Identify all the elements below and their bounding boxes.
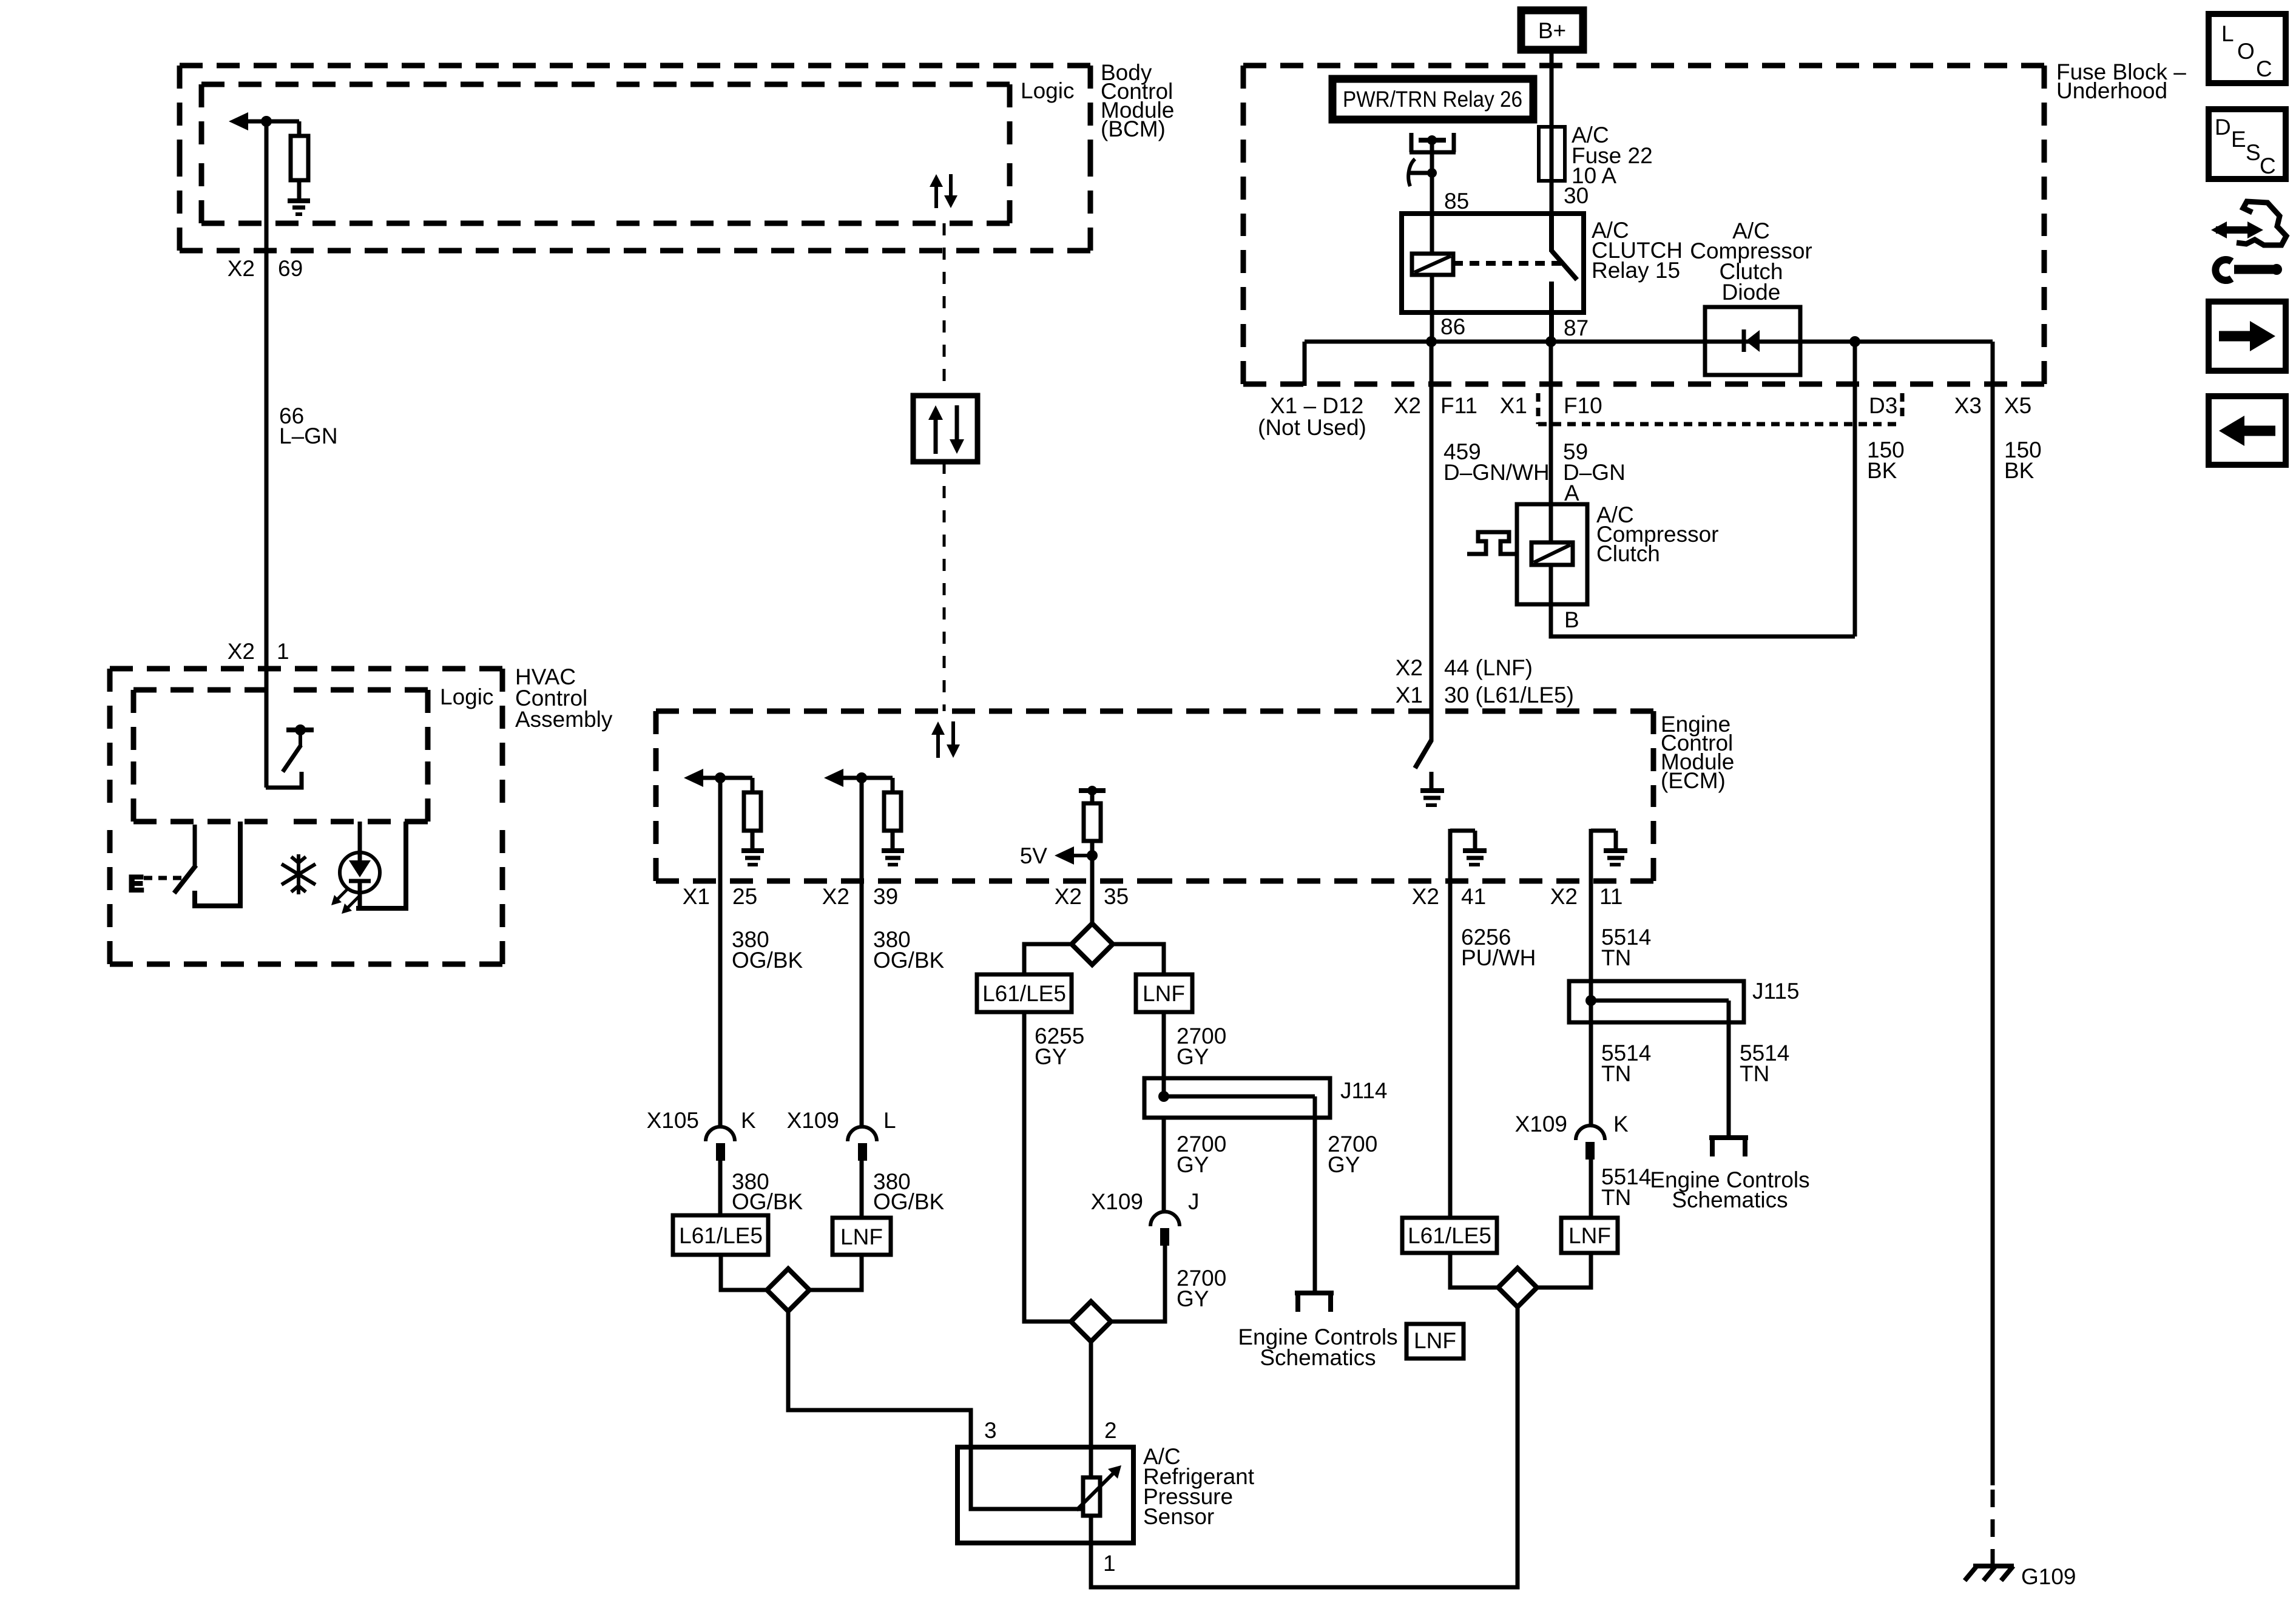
- svg-text:B+: B+: [1538, 18, 1566, 43]
- diode A/C Compressor Clutch Diode: [1705, 307, 1800, 375]
- wire LNF to splice: [809, 1255, 862, 1290]
- svg-text:GY: GY: [1177, 1044, 1209, 1069]
- svg-text:L61/LE5: L61/LE5: [679, 1223, 763, 1248]
- wire below X109: [860, 1161, 864, 1218]
- BCM serial data arrows: [934, 185, 938, 208]
- svg-text:X2: X2: [1412, 884, 1439, 909]
- dashed data wire BCM to ECM: [943, 223, 946, 396]
- svg-text:OG/BK: OG/BK: [873, 1189, 945, 1214]
- svg-text:LNF: LNF: [1568, 1223, 1611, 1248]
- splice S1: [767, 1269, 809, 1311]
- svg-text:LNF: LNF: [1414, 1328, 1456, 1353]
- svg-text:K: K: [1613, 1112, 1629, 1136]
- wire J114 left leg down: [1162, 1118, 1166, 1212]
- relay15 coil: [1430, 214, 1434, 254]
- svg-text:X1: X1: [1396, 683, 1423, 707]
- svg-text:X105: X105: [647, 1108, 699, 1133]
- junction dot diode out: [1849, 336, 1860, 347]
- sensor internal wiring: [971, 1447, 1084, 1509]
- svg-text:C: C: [2256, 56, 2272, 81]
- wire X1-25 down: [718, 778, 723, 1127]
- svg-text:X1 – D12: X1 – D12: [1270, 393, 1363, 418]
- HVAC inner Logic dashed box: [133, 690, 428, 822]
- wire J115 right leg down: [1727, 1001, 1731, 1138]
- svg-text:J115: J115: [1752, 979, 1800, 1004]
- splice S4: [1498, 1268, 1537, 1307]
- svg-text:E: E: [129, 871, 144, 896]
- svg-text:1: 1: [1103, 1551, 1116, 1576]
- svg-text:5V: 5V: [1020, 843, 1048, 868]
- serial data symbol box: [913, 396, 977, 462]
- svg-text:TN: TN: [1601, 945, 1631, 970]
- svg-text:L–GN: L–GN: [279, 424, 338, 448]
- ECM ground pigtail pin X2-41: [1450, 829, 1475, 881]
- wire F10 59 down to clutch: [1549, 342, 1553, 504]
- wire LNF to splice S4: [1537, 1253, 1591, 1288]
- svg-text:(BCM): (BCM): [1101, 116, 1166, 141]
- wire splice to sensor pin 2: [1089, 1342, 1093, 1447]
- connector J115: [1569, 981, 1744, 1022]
- svg-text:1: 1: [277, 639, 289, 664]
- svg-text:10 A: 10 A: [1572, 163, 1616, 188]
- svg-text:PWR/TRN Relay 26: PWR/TRN Relay 26: [1343, 87, 1522, 112]
- svg-text:GY: GY: [1328, 1152, 1360, 1177]
- svg-text:X2: X2: [228, 256, 255, 281]
- relay15 switch: [1549, 214, 1554, 252]
- PWR/TRN Relay 26 box: [1332, 79, 1533, 120]
- icon wrench/arrow: [2211, 201, 2286, 280]
- wire F11 459 down to ECM: [1430, 342, 1434, 714]
- svg-text:BK: BK: [1867, 458, 1897, 483]
- svg-text:GY: GY: [1177, 1286, 1209, 1311]
- wire junction rail 86/87/diode: [1305, 340, 1993, 344]
- switch A/C on-off (HVAC panel): [193, 825, 197, 866]
- icon LOC: [2209, 14, 2286, 83]
- ECM serial data arrows: [936, 732, 940, 758]
- svg-text:LNF: LNF: [840, 1224, 883, 1249]
- splice S2: [1072, 923, 1113, 965]
- svg-text:2: 2: [1104, 1418, 1117, 1443]
- wire L61 to splice: [721, 1255, 767, 1290]
- ECM input circuit pin X1-25: arrow, resistor, ground: [684, 769, 703, 787]
- ground (ECM driver): [1430, 772, 1434, 788]
- 5V node: [1087, 850, 1098, 861]
- code box LNF: [1561, 1218, 1618, 1253]
- clutch actuator squiggle: [1467, 532, 1517, 554]
- svg-text:TN: TN: [1601, 1061, 1631, 1086]
- wire J115 left leg down: [1589, 1001, 1593, 1124]
- svg-text:K: K: [741, 1108, 756, 1133]
- ECM input circuit pin X2-39: arrow, resistor, ground: [824, 769, 843, 787]
- wire B+ feed: [1550, 53, 1554, 214]
- node junction dot BCM: [261, 116, 272, 127]
- wire J114 right leg down: [1313, 1096, 1317, 1293]
- svg-text:X1: X1: [1500, 393, 1527, 418]
- wire X2-39 down: [860, 778, 864, 1127]
- fuse block outer dashed box: [1243, 66, 2044, 384]
- svg-text:Schematics: Schematics: [1672, 1187, 1788, 1212]
- wire D3 150 down: [1853, 342, 1857, 636]
- wire clutch B return: [1551, 604, 1855, 636]
- svg-text:F11: F11: [1440, 393, 1477, 418]
- connector J114: [1144, 1078, 1330, 1118]
- svg-text:Assembly: Assembly: [515, 707, 613, 732]
- svg-text:GY: GY: [1177, 1152, 1209, 1177]
- code box LNF standalone: [1406, 1324, 1464, 1359]
- code box LNF: [1136, 974, 1192, 1012]
- resistor R-BCM: [297, 121, 302, 136]
- svg-text:A: A: [1564, 481, 1579, 505]
- BCM inner Logic dashed box: [201, 84, 1010, 223]
- svg-text:Underhood: Underhood: [2056, 78, 2167, 103]
- off-page bracket (J115 branch): [1709, 1138, 1748, 1156]
- wire X109-K down: [1589, 1160, 1593, 1218]
- relay 26 contact symbol: [1410, 133, 1456, 152]
- svg-text:30 (L61/LE5): 30 (L61/LE5): [1444, 683, 1574, 707]
- svg-text:C: C: [2260, 154, 2276, 178]
- svg-text:J: J: [1188, 1189, 1200, 1214]
- svg-text:L: L: [883, 1108, 896, 1133]
- snowflake icon: [282, 854, 316, 894]
- svg-text:X2: X2: [1055, 884, 1082, 909]
- icon arrow right: [2209, 302, 2286, 371]
- HVAC outer dashed box: [110, 669, 502, 964]
- relay15 dashed link: [1453, 261, 1565, 266]
- svg-text:35: 35: [1104, 884, 1129, 909]
- svg-text:Relay 15: Relay 15: [1592, 258, 1680, 283]
- svg-text:(ECM): (ECM): [1661, 768, 1726, 793]
- svg-text:B: B: [1564, 607, 1579, 632]
- wire X109-J to splice S3: [1111, 1246, 1165, 1322]
- svg-text:D–GN/WH: D–GN/WH: [1443, 460, 1550, 485]
- dashed actuator wire E: [144, 876, 181, 880]
- svg-text:L61/LE5: L61/LE5: [1408, 1223, 1491, 1248]
- wire LNF branch to J114: [1162, 1012, 1166, 1096]
- ECM ground pigtail pin X2-11: [1591, 829, 1616, 881]
- ECM dashed box: [656, 711, 1653, 881]
- wire splice to sensor pin 3: [788, 1311, 971, 1447]
- wire splice to LNF: [1113, 944, 1164, 974]
- clutch box: [1517, 504, 1587, 604]
- junction relay26: [1427, 168, 1437, 178]
- svg-text:E: E: [2231, 127, 2246, 152]
- wire L61 branch down: [1024, 1012, 1071, 1322]
- wire splice to L61/LE5: [1024, 944, 1072, 974]
- icon arrow left: [2209, 396, 2286, 465]
- sensor box: [957, 1447, 1133, 1543]
- svg-text:Schematics: Schematics: [1260, 1345, 1376, 1370]
- wire X2-41 down: [1448, 881, 1453, 1218]
- off-page bracket (J114 branch): [1295, 1293, 1334, 1312]
- svg-text:OG/BK: OG/BK: [732, 948, 803, 973]
- svg-text:44 (LNF): 44 (LNF): [1444, 655, 1533, 680]
- svg-text:X2: X2: [1550, 884, 1578, 909]
- LED indicator: [358, 822, 362, 862]
- wire X3 150 to G109: [1991, 342, 1995, 1485]
- svg-text:J114: J114: [1340, 1078, 1388, 1103]
- svg-text:X2: X2: [1394, 393, 1421, 418]
- wire splice S4 to sensor pin 1: [1091, 1307, 1518, 1587]
- svg-text:X3: X3: [1954, 393, 1982, 418]
- svg-text:TN: TN: [1601, 1185, 1631, 1210]
- svg-text:G109: G109: [2021, 1564, 2076, 1589]
- svg-text:O: O: [2237, 39, 2255, 64]
- svg-text:85: 85: [1444, 189, 1469, 214]
- svg-text:OG/BK: OG/BK: [873, 948, 945, 973]
- svg-text:X109: X109: [1515, 1112, 1567, 1136]
- svg-text:86: 86: [1440, 314, 1465, 339]
- code box L61/LE5: [977, 974, 1072, 1012]
- svg-text:Diode: Diode: [1722, 280, 1781, 305]
- fuse A/C Fuse 22 10A: [1539, 127, 1565, 181]
- svg-text:Logic: Logic: [440, 684, 493, 709]
- svg-text:X2: X2: [228, 639, 255, 664]
- junction dot 86: [1426, 336, 1437, 347]
- junction dot 87: [1545, 336, 1556, 347]
- icon DESC: [2209, 109, 2286, 179]
- svg-text:X1: X1: [683, 884, 710, 909]
- splice S3: [1071, 1301, 1111, 1342]
- svg-text:S: S: [2246, 140, 2261, 165]
- arrow output (BCM internal): [229, 112, 248, 130]
- svg-text:BK: BK: [2004, 458, 2034, 483]
- clutch coil: [1549, 504, 1553, 542]
- svg-text:Sensor: Sensor: [1143, 1504, 1214, 1529]
- relay A/C CLUTCH Relay 15 box: [1402, 214, 1584, 312]
- svg-text:69: 69: [278, 256, 303, 281]
- svg-text:TN: TN: [1740, 1061, 1769, 1086]
- wire X2-35 down: [1090, 881, 1095, 923]
- code box L61/LE5: [673, 1215, 768, 1255]
- code box L61/LE5: [1402, 1218, 1497, 1253]
- svg-text:D3: D3: [1869, 393, 1897, 418]
- wire L61 to splice S4: [1450, 1253, 1498, 1288]
- battery B+: [1521, 10, 1583, 50]
- svg-text:OG/BK: OG/BK: [732, 1189, 803, 1214]
- LED photon arrows: [336, 888, 349, 901]
- svg-text:L: L: [2221, 21, 2234, 46]
- code box LNF: [832, 1218, 891, 1255]
- relay26 actuator hook: [1408, 159, 1415, 186]
- switch A/C request (HVAC logic): [286, 727, 314, 732]
- wire X2-11 down: [1589, 881, 1593, 1001]
- dashed wire to G109: [1991, 1490, 1995, 1573]
- ground G109: [1973, 1564, 2014, 1568]
- svg-text:PU/WH: PU/WH: [1461, 945, 1536, 970]
- wire 66 L-GN (BCM pin X2-69 down to HVAC pin X2-1): [265, 121, 269, 788]
- svg-text:D: D: [2215, 115, 2231, 140]
- svg-text:X5: X5: [2004, 393, 2031, 418]
- svg-text:(Not Used): (Not Used): [1258, 415, 1366, 440]
- ground (BCM internal): [288, 198, 310, 203]
- svg-text:41: 41: [1461, 884, 1486, 909]
- svg-text:3: 3: [984, 1418, 997, 1443]
- wire stub X1-D12: [1303, 342, 1307, 386]
- svg-text:X109: X109: [1091, 1189, 1143, 1214]
- ECM 5V supply circuit pin X2-35: [1079, 788, 1106, 793]
- BCM outer dashed box: [180, 66, 1090, 251]
- svg-text:X2: X2: [1396, 655, 1423, 680]
- svg-text:Logic: Logic: [1021, 78, 1074, 103]
- svg-text:Clutch: Clutch: [1596, 541, 1660, 566]
- svg-text:39: 39: [873, 884, 898, 909]
- svg-text:F10: F10: [1564, 393, 1602, 418]
- svg-text:X2: X2: [822, 884, 849, 909]
- wire relay26 to coil pin 85: [1430, 140, 1434, 214]
- wire arrow to resistor: [246, 120, 299, 124]
- svg-text:25: 25: [732, 884, 757, 909]
- wire below X105: [718, 1161, 723, 1215]
- fuse block inner dashed connector X1 region: [1538, 393, 1902, 424]
- svg-text:L61/LE5: L61/LE5: [982, 981, 1066, 1006]
- svg-text:87: 87: [1564, 316, 1589, 340]
- svg-text:LNF: LNF: [1143, 981, 1185, 1006]
- ECM driver switch (44/30 wire): [1430, 714, 1434, 741]
- svg-text:11: 11: [1599, 884, 1622, 909]
- svg-text:X109: X109: [787, 1108, 839, 1133]
- svg-text:GY: GY: [1035, 1044, 1067, 1069]
